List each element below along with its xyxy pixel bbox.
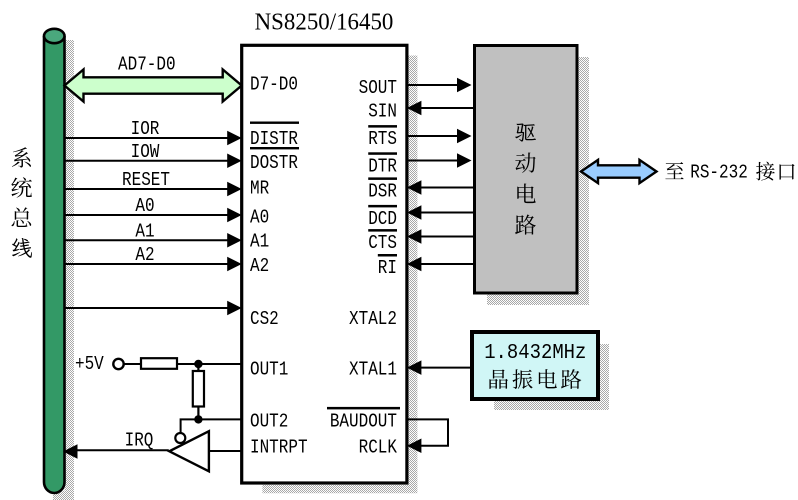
wire DCD from driver	[407, 205, 422, 220]
wire node2 to OUT2	[198, 418, 241, 420]
wire DSR from driver	[407, 180, 422, 195]
svg-text:DCD: DCD	[368, 209, 397, 231]
wire +5V to R1	[124, 363, 141, 365]
shadow of system bus	[65, 40, 75, 500]
svg-text:+5V: +5V	[75, 354, 104, 376]
svg-text:A2: A2	[250, 256, 269, 278]
svg-text:RTS: RTS	[368, 129, 397, 151]
svg-text:D7-D0: D7-D0	[250, 74, 298, 96]
svg-text:A0: A0	[135, 196, 154, 218]
svg-text:RCLK: RCLK	[359, 437, 398, 459]
label 晶振电路 (crystal circuit)	[489, 369, 581, 389]
wire IOW to DOSTR	[65, 160, 229, 162]
shadow of crystal box	[494, 344, 609, 410]
overline of RI	[378, 254, 397, 257]
wire node to OUT1	[198, 363, 241, 365]
svg-text:BAUDOUT: BAUDOUT	[330, 411, 397, 433]
svg-text:IOR: IOR	[131, 119, 160, 141]
junction node at OUT1	[194, 360, 202, 368]
wire A2	[65, 263, 229, 265]
wire CS2 chip select	[65, 307, 229, 309]
svg-text:1.8432MHz: 1.8432MHz	[484, 341, 586, 365]
overline of BAUDOUT	[327, 407, 400, 410]
svg-text:A1: A1	[250, 231, 269, 253]
svg-text:RI: RI	[378, 258, 397, 280]
svg-text:INTRPT: INTRPT	[250, 437, 308, 459]
crystal circuit box 1.8432MHz	[472, 332, 598, 399]
overline of CTS	[368, 229, 397, 232]
svg-text:DTR: DTR	[368, 156, 397, 178]
label 系统总线 (system bus)	[11, 147, 32, 257]
svg-text:NS8250/16450: NS8250/16450	[255, 9, 394, 36]
wire XTAL1 from crystal	[407, 360, 422, 375]
svg-text:RS-232: RS-232	[690, 162, 748, 184]
chip box U1 NS8250/16450	[242, 45, 407, 483]
shadow of driver box	[487, 57, 589, 305]
svg-text:IOW: IOW	[131, 142, 160, 164]
bus arrow AD7-D0 (data bus, bidirectional)	[65, 70, 242, 102]
wire A0	[65, 214, 229, 216]
svg-text:A2: A2	[135, 245, 154, 267]
svg-text:IRQ: IRQ	[125, 430, 154, 452]
wire RESET to MR	[65, 188, 229, 190]
svg-text:DOSTR: DOSTR	[250, 153, 298, 175]
svg-text:SIN: SIN	[368, 101, 397, 123]
svg-text:CS2: CS2	[250, 308, 279, 330]
wire R1 to node	[177, 363, 198, 365]
resistor R2 (vertical)	[193, 371, 204, 407]
terminal circle +5V	[113, 359, 123, 369]
inverter buffer (triangle)	[169, 431, 209, 471]
wire RI from driver	[407, 257, 422, 272]
wire CTS from driver	[407, 229, 422, 244]
wire node2 to inverter bubble	[181, 419, 199, 433]
driver box 驱动电路	[475, 46, 578, 294]
overline of DISTR	[250, 122, 299, 124]
wire SIN from driver	[407, 101, 422, 116]
wire IOR to DISTR	[65, 137, 229, 139]
svg-text:OUT2: OUT2	[250, 411, 288, 433]
svg-text:AD7-D0: AD7-D0	[118, 54, 176, 76]
label 至 RS-232 接口 (to RS-232 interface)	[665, 162, 794, 184]
wire node to R2	[197, 364, 199, 371]
overline of DTR	[368, 152, 397, 155]
inverter bubble	[175, 433, 185, 443]
svg-text:CTS: CTS	[368, 233, 397, 255]
svg-text:A0: A0	[250, 207, 269, 229]
wire IRQ	[78, 449, 169, 451]
shadow of chip box	[262, 56, 417, 494]
resistor R1 (horizontal)	[141, 358, 177, 369]
wire INTRPT to inverter	[209, 450, 242, 452]
overline of DSR	[368, 177, 397, 180]
wire SOUT to driver	[407, 84, 459, 86]
overline of DCD	[368, 205, 397, 208]
svg-text:XTAL1: XTAL1	[349, 359, 397, 381]
junction node at OUT2	[194, 415, 202, 423]
arrowhead IRQ into bus	[63, 444, 78, 459]
wire BAUDOUT to RCLK loop	[407, 419, 448, 445]
wire A1	[65, 239, 229, 241]
bus arrow to RS-232 (bidirectional)	[581, 160, 657, 183]
system bus cylinder	[44, 36, 65, 493]
svg-text:DSR: DSR	[368, 181, 397, 203]
svg-text:OUT1: OUT1	[250, 359, 288, 381]
svg-text:XTAL2: XTAL2	[349, 308, 397, 330]
svg-text:SOUT: SOUT	[359, 77, 398, 99]
svg-text:MR: MR	[250, 178, 269, 200]
underline of DISTR	[250, 147, 299, 149]
svg-text:RESET: RESET	[122, 170, 170, 192]
wire DTR to driver	[407, 160, 459, 162]
svg-text:A1: A1	[135, 221, 154, 243]
overline of RTS	[368, 125, 397, 128]
wire RTS to driver	[407, 135, 459, 137]
wire R2 to node2	[197, 407, 199, 420]
label 驱动电路 (driver circuit)	[515, 123, 536, 234]
